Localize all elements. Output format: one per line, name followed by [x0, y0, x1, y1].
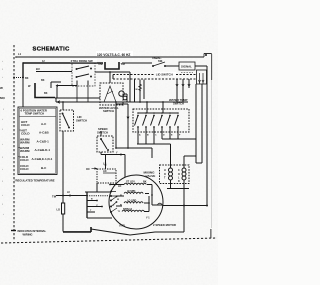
- lid switch contact: [62, 113, 71, 129]
- svg-text:VALVE: VALVE: [146, 174, 156, 178]
- page edge dashed left: [13, 45, 15, 240]
- label LO coil: [57, 209, 61, 212]
- pressure switch triangle: [104, 86, 116, 102]
- pressure switch contact circle: [119, 91, 127, 100]
- svg-text:AC: AC: [103, 169, 107, 173]
- svg-text:2 SPEED MOTOR: 2 SPEED MOTOR: [153, 223, 176, 227]
- wire ls drop: [105, 155, 107, 169]
- label XTRA RINSE SW: [70, 59, 97, 63]
- motor winding spin: [122, 210, 144, 211]
- svg-text:SWITCH: SWITCH: [97, 131, 108, 135]
- svg-text:MO: MO: [0, 96, 5, 100]
- water temp switch box: [133, 109, 189, 132]
- svg-text:WARM: WARM: [20, 140, 30, 144]
- wire rinse stubs down: [77, 85, 88, 102]
- svg-text:COLD: COLD: [20, 158, 29, 162]
- plug PB-TM: [105, 62, 119, 69]
- wire mid join: [115, 147, 152, 158]
- legend footnote: [15, 178, 55, 182]
- svg-text:BK: BK: [41, 79, 45, 82]
- label UNBAL SW: [152, 56, 163, 63]
- legend title: [21, 109, 47, 116]
- svg-text:W: W: [0, 86, 3, 90]
- svg-text:COLD: COLD: [21, 123, 30, 127]
- connector pins: [176, 79, 190, 88]
- thick feed vertical: [22, 62, 24, 77]
- wts bus: [137, 102, 179, 114]
- label water level: [99, 106, 119, 113]
- svg-text:120 VOLTS A.C. 60 HZ: 120 VOLTS A.C. 60 HZ: [97, 53, 130, 57]
- svg-text:A-C&B: A-C&B: [39, 131, 49, 135]
- svg-text:COLD: COLD: [20, 167, 29, 171]
- svg-text:WIRING: WIRING: [23, 232, 33, 236]
- label OC arrow: [86, 167, 97, 171]
- wire wts to valve: [137, 136, 196, 189]
- wire TM bottom: [56, 195, 109, 197]
- wire rail right of plug: [122, 62, 152, 64]
- svg-text:XTRA RINSE SW: XTRA RINSE SW: [71, 59, 93, 63]
- svg-text:COLD: COLD: [21, 132, 30, 136]
- mixing valve box: [160, 165, 190, 184]
- svg-text:*REGULATED TEMPERATURE: *REGULATED TEMPERATURE: [15, 178, 55, 182]
- svg-text:BK: BK: [44, 92, 48, 95]
- svg-text:ST LDV: ST LDV: [126, 181, 135, 184]
- wire drops to wts: [130, 72, 144, 102]
- svg-text:TM: TM: [52, 195, 57, 199]
- wire speed drop: [101, 131, 125, 177]
- label W: [28, 84, 31, 88]
- svg-text:BU: BU: [36, 67, 40, 71]
- margin tick text column: [2, 61, 4, 216]
- label L1 tick: [18, 52, 22, 56]
- svg-text:SWITCH: SWITCH: [173, 102, 184, 106]
- wire right rail: [206, 66, 208, 206]
- motor brush dots: [110, 191, 117, 214]
- page edge dashed bottom: [1, 238, 217, 243]
- svg-text:LD: LD: [118, 185, 122, 188]
- wire diagonal bottom: [91, 229, 184, 235]
- label AC: [103, 169, 107, 173]
- label PB: [99, 62, 104, 66]
- valve solenoid cold: [178, 168, 186, 183]
- svg-text:LO: LO: [57, 209, 61, 212]
- water temp switch label: [169, 98, 188, 106]
- label BK stub: [25, 77, 29, 80]
- label 120 VOLTS: [96, 51, 133, 57]
- wire rails join: [196, 162, 202, 164]
- legend internal wiring: [11, 229, 46, 236]
- speed switch label: [97, 127, 108, 135]
- label LID SWITCH left: [76, 115, 87, 123]
- extra rinse switch box: [72, 63, 95, 86]
- legend table box: [18, 107, 57, 175]
- svg-text:A-C&B-D-1: A-C&B-D-1: [35, 148, 51, 152]
- speed switch contact: [100, 138, 109, 151]
- label TM: [121, 62, 126, 66]
- legend divider: [19, 116, 55, 118]
- wts terminal stubs: [138, 132, 178, 136]
- motor terminal comb: [87, 192, 112, 218]
- label 2 speed motor: [153, 223, 176, 227]
- label TM bottom: [52, 195, 57, 199]
- wire rinse out: [95, 71, 130, 73]
- lid switch band dashed: [113, 75, 196, 80]
- valve solenoid hot: [164, 168, 173, 180]
- svg-text:BK: BK: [25, 77, 29, 80]
- buzzer SIGNAL box: [179, 62, 195, 73]
- svg-text:SCHEMATIC: SCHEMATIC: [33, 47, 71, 53]
- wts contacts: [135, 115, 179, 132]
- svg-text:U RD: U RD: [119, 225, 125, 228]
- lid switch box left: [60, 110, 74, 131]
- svg-text:SWITCH: SWITCH: [103, 109, 114, 113]
- speed switch box: [97, 136, 113, 152]
- extra rinse contacts: [76, 66, 93, 85]
- page crease right: [210, 54, 213, 238]
- motor brush labels: [113, 199, 121, 213]
- title SCHEMATIC: [33, 47, 71, 53]
- scan noise: [0, 0, 218, 285]
- motor internal wires: [110, 185, 163, 212]
- svg-text:SPIN HI: SPIN HI: [123, 208, 132, 211]
- connector block right: [197, 70, 207, 84]
- svg-text:O: O: [164, 173, 166, 176]
- wire motor right out: [158, 203, 209, 206]
- label LID SWITCH band: [155, 72, 176, 77]
- wire pressure right drop: [109, 71, 129, 148]
- svg-text:A-C&D-1: A-C&D-1: [37, 139, 50, 143]
- mixing valve label: [144, 171, 156, 179]
- clutch solenoid box: [97, 169, 116, 183]
- wire ls area: [85, 183, 110, 192]
- svg-text:LC: LC: [67, 192, 70, 194]
- label LS: [103, 162, 107, 166]
- motor circle: [109, 175, 163, 229]
- motor brush links: [111, 192, 118, 213]
- page corner mark top-right: [204, 54, 212, 58]
- unbalance switch: [152, 62, 179, 67]
- svg-text:OC: OC: [86, 167, 90, 171]
- wire riser: [51, 82, 61, 88]
- svg-text:A-C: A-C: [41, 122, 47, 126]
- svg-text:B-C: B-C: [41, 166, 47, 170]
- svg-text:C: C: [178, 169, 180, 172]
- divider AC: [103, 172, 116, 174]
- motor terminal dots: [109, 184, 153, 204]
- label hi spd: [120, 190, 136, 197]
- wire left vertical: [22, 77, 24, 107]
- svg-text:WARM: WARM: [20, 149, 30, 153]
- label motor codes: [119, 217, 150, 228]
- legend rows: [19, 120, 53, 171]
- label spin: [123, 208, 132, 211]
- svg-text:SWITCH: SWITCH: [76, 119, 87, 123]
- wire main mid rail: [56, 101, 188, 104]
- svg-text:HI SPD: HI SPD: [127, 190, 136, 193]
- margin text fragment: [0, 86, 5, 100]
- wire lid drop: [62, 102, 64, 196]
- wire to pressure switch: [55, 98, 100, 102]
- motor winding lo: [124, 202, 143, 203]
- svg-text:BK: BK: [143, 181, 147, 184]
- svg-text:A-C&B,E-1,D-1: A-C&B,E-1,D-1: [32, 157, 53, 161]
- wire valve drop: [183, 189, 185, 233]
- motor winding hi: [124, 192, 143, 193]
- svg-text:H: H: [164, 169, 166, 172]
- svg-text:TEMP SWITCH: TEMP SWITCH: [25, 112, 45, 116]
- svg-text:SIGNAL: SIGNAL: [181, 65, 192, 69]
- timer motor coil: [61, 196, 64, 232]
- thick L wire: [35, 83, 55, 98]
- wire signal to right rail: [195, 65, 207, 67]
- dotted stub left: [13, 77, 24, 79]
- wire bottom thick: [63, 227, 91, 232]
- svg-text:LID SWITCH: LID SWITCH: [156, 73, 173, 77]
- label lo spd: [120, 200, 137, 208]
- label LC wire: [67, 192, 70, 194]
- wire arrow branch: [56, 84, 78, 98]
- wts terminal letters: [139, 134, 181, 137]
- svg-text:SW.: SW.: [158, 59, 163, 63]
- label BK2: [41, 60, 48, 95]
- svg-text:D: D: [178, 180, 180, 183]
- wire top rail L1: [15, 56, 204, 58]
- label start wdg: [118, 181, 147, 189]
- wire BU rail: [36, 71, 72, 73]
- label BU: [36, 67, 40, 71]
- svg-text:LO SPD: LO SPD: [127, 200, 137, 203]
- wire thick rail: [23, 62, 103, 64]
- motor winding start: [124, 183, 146, 184]
- pressure switch box: [100, 83, 123, 105]
- wire pins down: [177, 84, 202, 163]
